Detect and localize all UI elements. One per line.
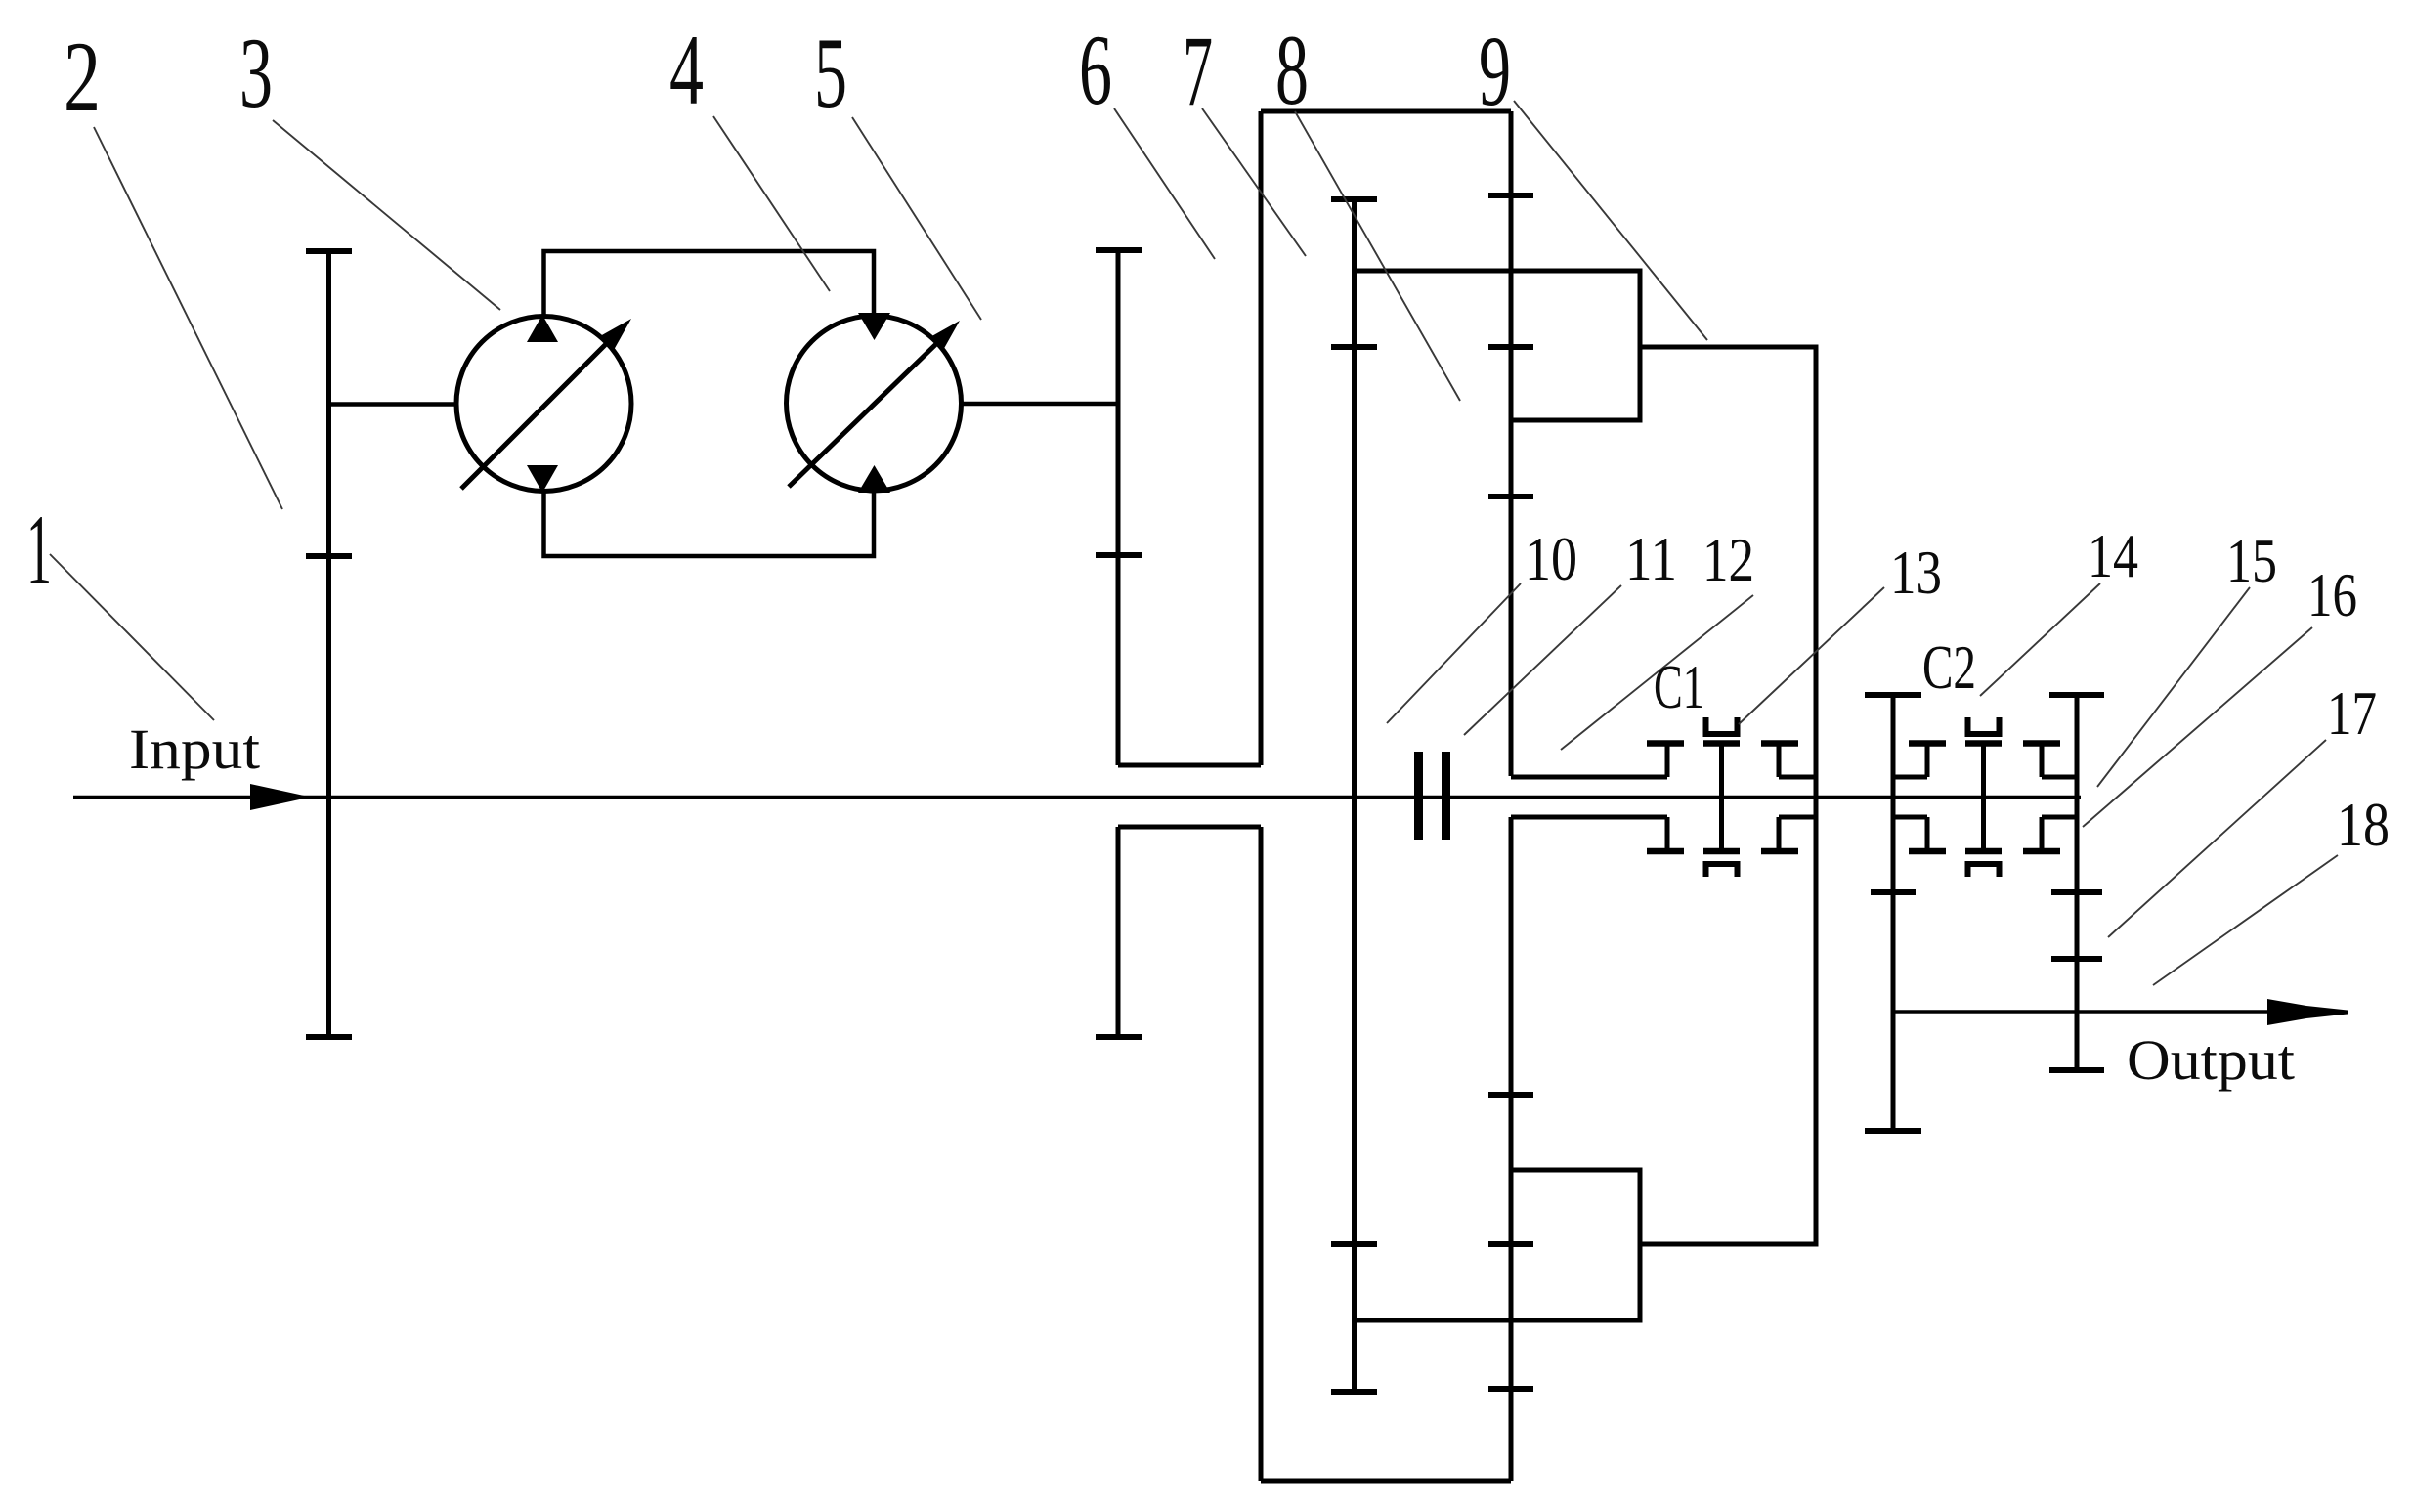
wire C1 lower-left link [1511, 815, 1667, 820]
motor 5 circle [787, 316, 962, 491]
clutch C2 upper bar [1965, 740, 2002, 747]
clutch C1 upper cup [1706, 717, 1738, 734]
clutch C2 lower bar [1965, 848, 2002, 855]
gear 15 mesh tick [1871, 889, 1916, 895]
svg-text:C1: C1 [1654, 653, 1704, 721]
pump 3 flow arrow up [527, 315, 558, 342]
svg-text:6: 6 [1079, 15, 1112, 126]
sun shaft tick d [1488, 1092, 1533, 1098]
coupling 11 right bar [1442, 752, 1450, 840]
motor 5 flow arrow down [858, 313, 890, 340]
svg-text:13: 13 [1890, 539, 1942, 607]
leader 17 [2108, 740, 2326, 937]
leader 12 [1561, 595, 1753, 750]
clutch C1 upper bar [1703, 740, 1740, 747]
gear 17 mesh tick a [2051, 889, 2102, 895]
wire ring gear lower link [1355, 1170, 1641, 1320]
gear shaft 8 vertical line [1352, 199, 1357, 1392]
leader 15 [2097, 587, 2250, 787]
wire C1 upper-left link [1511, 775, 1667, 780]
gear 8 mesh tick lower [1331, 1241, 1377, 1247]
svg-text:10: 10 [1525, 525, 1577, 593]
gear 8 top cap [1331, 196, 1377, 202]
gear 2 top cap [306, 248, 352, 254]
wire hydraulic loop 4 top [544, 251, 875, 317]
leader 16 [2083, 627, 2312, 827]
clutch C1 plate upper-left stem [1665, 743, 1670, 777]
wire hydraulic loop 4 bottom [544, 491, 875, 556]
svg-text:3: 3 [239, 18, 273, 129]
wire gear 6 to frame upper [1118, 763, 1261, 768]
frame 7 left edge lower [1259, 827, 1264, 1481]
gear 17 mesh tick b [2051, 956, 2102, 962]
gear 8 bottom cap [1331, 1389, 1377, 1395]
clutch C1 stem [1719, 743, 1724, 851]
sun shaft tick a [1488, 193, 1533, 198]
svg-text:7: 7 [1183, 16, 1213, 127]
leader 9 [1514, 101, 1707, 340]
svg-text:16: 16 [2307, 561, 2357, 629]
svg-text:1: 1 [26, 495, 52, 606]
wire output shaft 18 [1893, 1010, 2277, 1013]
gear shaft 15 vertical line [1891, 695, 1896, 1131]
svg-text:18: 18 [2337, 791, 2390, 859]
gear 2 mesh tick [306, 553, 352, 559]
clutch C1 plate lower-left cap [1647, 848, 1684, 855]
leader 14 [1980, 583, 2100, 696]
wire housing 9 [1640, 347, 1816, 1244]
wire C1 upper-right link [1779, 775, 1816, 780]
gear 17 top cap [2049, 692, 2104, 698]
frame 7 left edge upper [1259, 111, 1264, 765]
wire C2 lower-right link [2042, 815, 2077, 820]
clutch C2 upper cup [1968, 717, 2000, 734]
frame 7 bottom edge [1261, 1479, 1511, 1484]
svg-text:12: 12 [1702, 526, 1754, 594]
frame 7 right edge upper [1509, 111, 1514, 776]
svg-text:Output: Output [2127, 1028, 2295, 1092]
gear shaft 2 vertical line [326, 248, 331, 1038]
clutch C1 plate lower-left stem [1665, 817, 1670, 851]
leader 7 [1202, 108, 1306, 256]
clutch C2 plate lower-right cap [2023, 848, 2060, 855]
gear shaft 6 lower line [1116, 827, 1121, 1037]
output arrow [2267, 999, 2348, 1025]
motor 5 variable arrow [789, 341, 939, 487]
clutch C1 plate upper-right stem [1777, 743, 1782, 777]
leader 10 [1387, 583, 1521, 723]
svg-text:14: 14 [2088, 522, 2138, 590]
svg-text:17: 17 [2327, 679, 2377, 748]
clutch C2 plate lower-right stem [2040, 817, 2045, 851]
svg-text:5: 5 [814, 18, 847, 129]
wire motor output link [962, 402, 1119, 407]
pump 3 circle [456, 317, 631, 492]
leader 18 [2153, 855, 2338, 985]
motor 5 flow arrow up [858, 465, 890, 493]
sun shaft tick b [1488, 344, 1533, 350]
clutch C2 plate lower-left stem [1925, 817, 1930, 851]
clutch C1 plate lower-right cap [1761, 848, 1798, 855]
wire main input shaft 1 [73, 796, 2081, 799]
wire pump input link [329, 402, 457, 407]
svg-text:C2: C2 [1922, 633, 1976, 702]
gear 17 bottom cap [2049, 1067, 2104, 1073]
leader 6 [1114, 108, 1215, 259]
gear 2 bottom cap [306, 1034, 352, 1040]
leader 3 [273, 120, 500, 310]
pump 3 flow arrow down [527, 465, 558, 493]
gear 6 mesh tick [1096, 552, 1142, 558]
clutch C1 plate upper-left cap [1647, 740, 1684, 747]
gear 8 mesh tick upper [1331, 344, 1377, 350]
svg-text:15: 15 [2226, 527, 2277, 595]
wire gear 6 to frame lower [1118, 825, 1261, 830]
leader 11 [1464, 585, 1621, 735]
clutch C2 stem [1981, 743, 1986, 851]
clutch C1 plate lower-right stem [1777, 817, 1782, 851]
leader 5 [852, 117, 981, 320]
gear 15 bottom cap [1865, 1128, 1921, 1134]
sun shaft tick c [1488, 494, 1533, 499]
svg-text:9: 9 [1479, 16, 1511, 127]
clutch C1 plate upper-right cap [1761, 740, 1798, 747]
gear 6 top cap [1096, 247, 1142, 253]
clutch C2 plate upper-left cap [1909, 740, 1946, 747]
leader 13 [1739, 587, 1884, 724]
leader 8 [1295, 111, 1460, 401]
leader 2 [94, 127, 282, 509]
sun shaft tick e [1488, 1241, 1533, 1247]
input arrow [250, 784, 311, 810]
svg-text:11: 11 [1625, 525, 1677, 593]
wire C2 upper-right link [2042, 775, 2077, 780]
clutch C2 plate upper-right stem [2040, 743, 2045, 777]
leader 1 [50, 554, 214, 720]
leader 4 [713, 116, 830, 291]
coupling 11 left bar [1414, 752, 1423, 840]
frame 7 top edge [1261, 109, 1511, 114]
svg-text:2: 2 [64, 22, 101, 133]
clutch C2 plate upper-left stem [1925, 743, 1930, 777]
wire C2 upper-left link [1893, 775, 1927, 780]
gear 15 top cap [1865, 692, 1921, 698]
gear 6 bottom cap [1096, 1034, 1142, 1040]
sun shaft tick f [1488, 1386, 1533, 1392]
clutch C2 plate upper-right cap [2023, 740, 2060, 747]
clutch C1 lower cup [1706, 864, 1738, 877]
gear shaft 17 vertical line [2075, 695, 2080, 1070]
gear shaft 6 upper line [1116, 248, 1121, 765]
svg-text:8: 8 [1275, 15, 1309, 126]
frame 7 right edge lower [1509, 817, 1514, 1481]
clutch C2 plate lower-left cap [1909, 848, 1946, 855]
svg-text:4: 4 [669, 15, 704, 126]
wire ring gear 8 upper link [1355, 271, 1641, 420]
pump 3 variable arrow [461, 339, 611, 489]
svg-text:Input: Input [129, 717, 260, 781]
wire C1 lower-right link [1779, 815, 1816, 820]
wire C2 lower-left link [1893, 815, 1927, 820]
clutch C1 lower bar [1703, 848, 1740, 855]
clutch C2 lower cup [1968, 864, 2000, 877]
